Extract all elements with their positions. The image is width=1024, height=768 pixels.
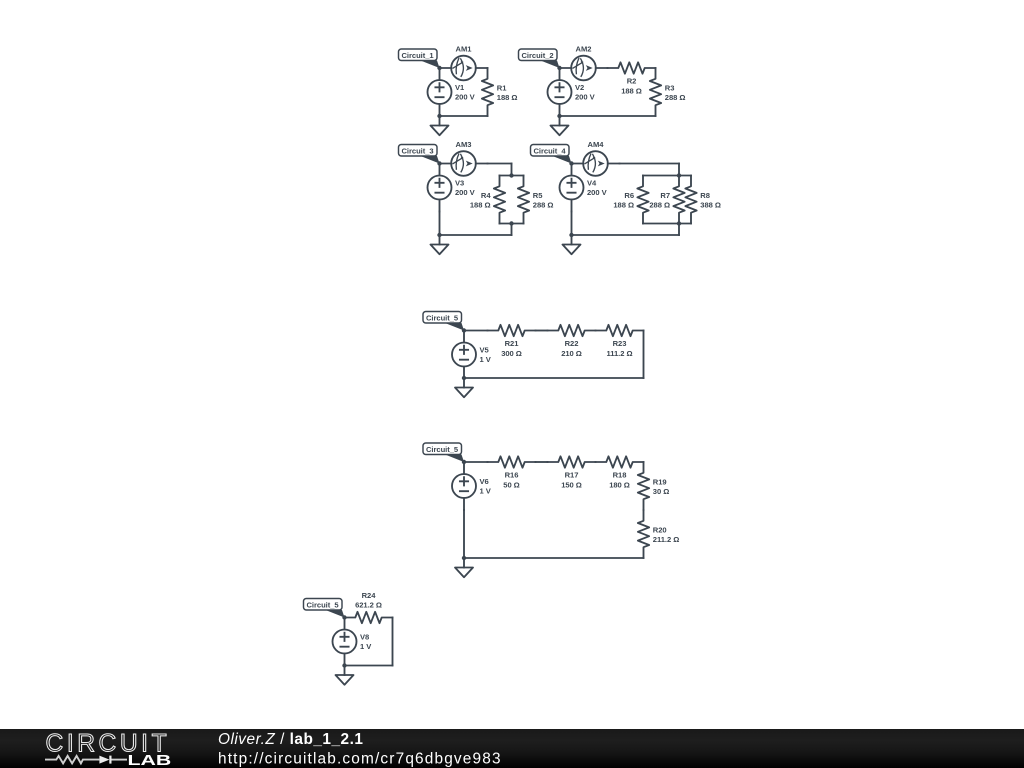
wire [440, 234, 512, 236]
wire [643, 223, 691, 225]
junction [462, 328, 466, 332]
svg-text:30 Ω: 30 Ω [653, 487, 669, 496]
svg-text:150 Ω: 150 Ω [561, 480, 582, 489]
label R22 value [561, 339, 582, 358]
label R7 value [649, 191, 670, 210]
ground [431, 235, 449, 254]
label R5 value [533, 191, 554, 210]
node flag Circuit_3 [399, 145, 440, 164]
label V6 value [480, 477, 492, 496]
svg-text:210 Ω: 210 Ω [561, 349, 582, 358]
resistor R16 [488, 456, 536, 467]
svg-text:188 Ω: 188 Ω [621, 86, 642, 95]
svg-text:1 V: 1 V [360, 642, 372, 651]
label V8 value [360, 632, 372, 651]
junction [557, 114, 561, 118]
node flag Circuit_5 [304, 599, 345, 618]
junction [557, 66, 561, 70]
svg-text:V4: V4 [587, 178, 597, 187]
svg-text:Circuit_5: Circuit_5 [426, 445, 459, 454]
wire [620, 163, 680, 165]
junction [677, 221, 681, 225]
svg-text:R1: R1 [497, 84, 507, 93]
wire [464, 377, 644, 379]
wire [536, 461, 548, 463]
svg-text:R21: R21 [505, 339, 520, 348]
svg-text:R23: R23 [613, 339, 627, 348]
resistor R20 [638, 510, 649, 558]
junction [437, 233, 441, 237]
svg-text:621.2 Ω: 621.2 Ω [355, 601, 382, 610]
wire [439, 212, 441, 236]
voltage source V6 [452, 462, 476, 510]
ammeter AM3 [440, 151, 488, 176]
svg-text:1 V: 1 V [480, 486, 492, 495]
junction [342, 615, 346, 619]
label R20 value [653, 526, 679, 545]
ammeter AM4 [572, 151, 620, 176]
resistor R17 [548, 456, 596, 467]
svg-text:188 Ω: 188 Ω [497, 93, 518, 102]
wire [464, 330, 488, 332]
resistor R22 [548, 325, 596, 336]
resistor R3 [650, 68, 661, 116]
label R19 value [653, 478, 669, 497]
svg-text:R19: R19 [653, 478, 667, 487]
svg-text:200 V: 200 V [455, 188, 476, 197]
wire [678, 224, 680, 236]
label R3 value [665, 84, 686, 103]
svg-text:R16: R16 [505, 471, 519, 480]
svg-text:R5: R5 [533, 191, 543, 200]
wire [571, 212, 573, 236]
voltage source V1 [428, 68, 452, 116]
svg-text:300 Ω: 300 Ω [501, 349, 522, 358]
svg-text:R2: R2 [627, 77, 637, 86]
svg-text:LAB: LAB [128, 751, 172, 768]
svg-text:AM2: AM2 [576, 45, 592, 54]
svg-text:R24: R24 [362, 591, 377, 600]
svg-text:Oliver.Z / lab_1_2.1: Oliver.Z / lab_1_2.1 [218, 731, 363, 748]
svg-text:288 Ω: 288 Ω [665, 93, 686, 102]
svg-text:V2: V2 [575, 83, 584, 92]
label V4 value [587, 178, 608, 197]
svg-text:Circuit_2: Circuit_2 [522, 51, 554, 60]
svg-text:388 Ω: 388 Ω [700, 201, 721, 210]
wire [511, 164, 513, 176]
wire [345, 665, 393, 667]
label R24 value [355, 591, 382, 610]
svg-text:Circuit_5: Circuit_5 [307, 600, 340, 609]
svg-text:http://circuitlab.com/cr7q6dbg: http://circuitlab.com/cr7q6dbgve983 [218, 750, 501, 767]
svg-text:188 Ω: 188 Ω [613, 201, 634, 210]
wire [500, 223, 524, 225]
ground [455, 558, 473, 577]
junction [437, 66, 441, 70]
svg-text:V5: V5 [480, 345, 490, 354]
wire [464, 557, 644, 559]
svg-text:R17: R17 [565, 471, 579, 480]
svg-text:50 Ω: 50 Ω [503, 480, 519, 489]
wire [463, 510, 465, 558]
svg-text:R20: R20 [653, 526, 667, 535]
label V5 value [480, 345, 492, 364]
label R1 value [497, 84, 518, 103]
label R18 value [609, 471, 630, 490]
resistor R2 [608, 62, 656, 73]
junction [437, 114, 441, 118]
svg-text:Circuit_5: Circuit_5 [426, 313, 459, 322]
ground [551, 116, 569, 135]
svg-text:R7: R7 [660, 191, 670, 200]
svg-text:211.2 Ω: 211.2 Ω [653, 535, 679, 544]
junction [342, 663, 346, 667]
svg-text:200 V: 200 V [455, 92, 476, 101]
node flag Circuit_1 [399, 49, 440, 68]
svg-text:AM1: AM1 [456, 45, 473, 54]
ground [563, 235, 581, 254]
svg-text:111.2 Ω: 111.2 Ω [606, 349, 632, 358]
wire [643, 331, 645, 379]
resistor R1 [482, 68, 493, 116]
junction [437, 161, 441, 165]
resistor R8 [685, 176, 696, 224]
wire [643, 175, 691, 177]
label R16 value [503, 471, 519, 490]
label R6 value [613, 191, 634, 210]
ground [431, 116, 449, 135]
svg-text:R4: R4 [481, 191, 491, 200]
junction [462, 376, 466, 380]
resistor R4 [494, 176, 505, 224]
svg-text:R22: R22 [565, 339, 579, 348]
wire [464, 461, 488, 463]
ammeter AM2 [560, 56, 608, 81]
svg-text:R6: R6 [624, 191, 634, 200]
svg-text:288 Ω: 288 Ω [649, 201, 670, 210]
wire [511, 224, 513, 236]
label R2 value [621, 77, 642, 96]
CircuitLab logo resistor squiggle [45, 756, 99, 764]
resistor R5 [518, 176, 529, 224]
wire [678, 164, 680, 176]
voltage source V4 [560, 164, 584, 212]
wire [536, 330, 548, 332]
wire [392, 618, 394, 666]
svg-text:R18: R18 [613, 471, 627, 480]
junction [462, 460, 466, 464]
CircuitLab logo diode [99, 756, 127, 764]
resistor R24 [345, 612, 393, 623]
resistor R21 [488, 325, 536, 336]
wire [488, 163, 512, 165]
label R8 value [700, 191, 721, 210]
svg-text:AM4: AM4 [588, 140, 605, 149]
label R17 value [561, 471, 582, 490]
label V1 value [455, 83, 476, 102]
voltage source V2 [548, 68, 572, 116]
svg-text:Circuit_3: Circuit_3 [402, 146, 434, 155]
svg-text:V8: V8 [360, 632, 369, 641]
label R21 value [501, 339, 522, 358]
label V2 value [575, 83, 596, 102]
wire [560, 115, 656, 117]
svg-text:V6: V6 [480, 477, 489, 486]
svg-text:AM3: AM3 [456, 140, 472, 149]
junction [569, 161, 573, 165]
footer bar [0, 729, 1024, 768]
node flag Circuit_2 [519, 49, 560, 68]
svg-text:Circuit_1: Circuit_1 [402, 51, 435, 60]
resistor R23 [596, 325, 644, 336]
svg-text:V3: V3 [455, 178, 464, 187]
wire [500, 175, 524, 177]
junction [509, 173, 513, 177]
ground [455, 378, 473, 397]
resistor R7 [673, 176, 684, 224]
voltage source V5 [452, 331, 476, 379]
svg-text:188 Ω: 188 Ω [470, 201, 491, 210]
svg-text:Circuit_4: Circuit_4 [534, 146, 567, 155]
svg-text:180 Ω: 180 Ω [609, 480, 630, 489]
svg-text:200 V: 200 V [587, 188, 608, 197]
svg-text:288 Ω: 288 Ω [533, 201, 554, 210]
voltage source V8 [333, 618, 357, 666]
resistor R19 [638, 462, 649, 510]
svg-text:R3: R3 [665, 84, 675, 93]
label V3 value [455, 178, 476, 197]
node flag Circuit_4 [531, 145, 572, 164]
node flag Circuit_5 [423, 443, 464, 462]
label R23 value [606, 339, 632, 358]
svg-text:R8: R8 [700, 191, 710, 200]
svg-text:V1: V1 [455, 83, 465, 92]
ammeter AM1 [440, 56, 488, 81]
junction [462, 556, 466, 560]
node flag Circuit_5 [423, 312, 464, 331]
wire [440, 115, 488, 117]
junction [569, 233, 573, 237]
ground [336, 666, 354, 685]
label R4 value [470, 191, 491, 210]
wire [572, 234, 680, 236]
voltage source V3 [428, 164, 452, 212]
junction [509, 221, 513, 225]
junction [677, 173, 681, 177]
resistor R18 [596, 456, 644, 467]
svg-text:200 V: 200 V [575, 92, 596, 101]
svg-text:1 V: 1 V [480, 355, 492, 364]
resistor R6 [637, 176, 648, 224]
